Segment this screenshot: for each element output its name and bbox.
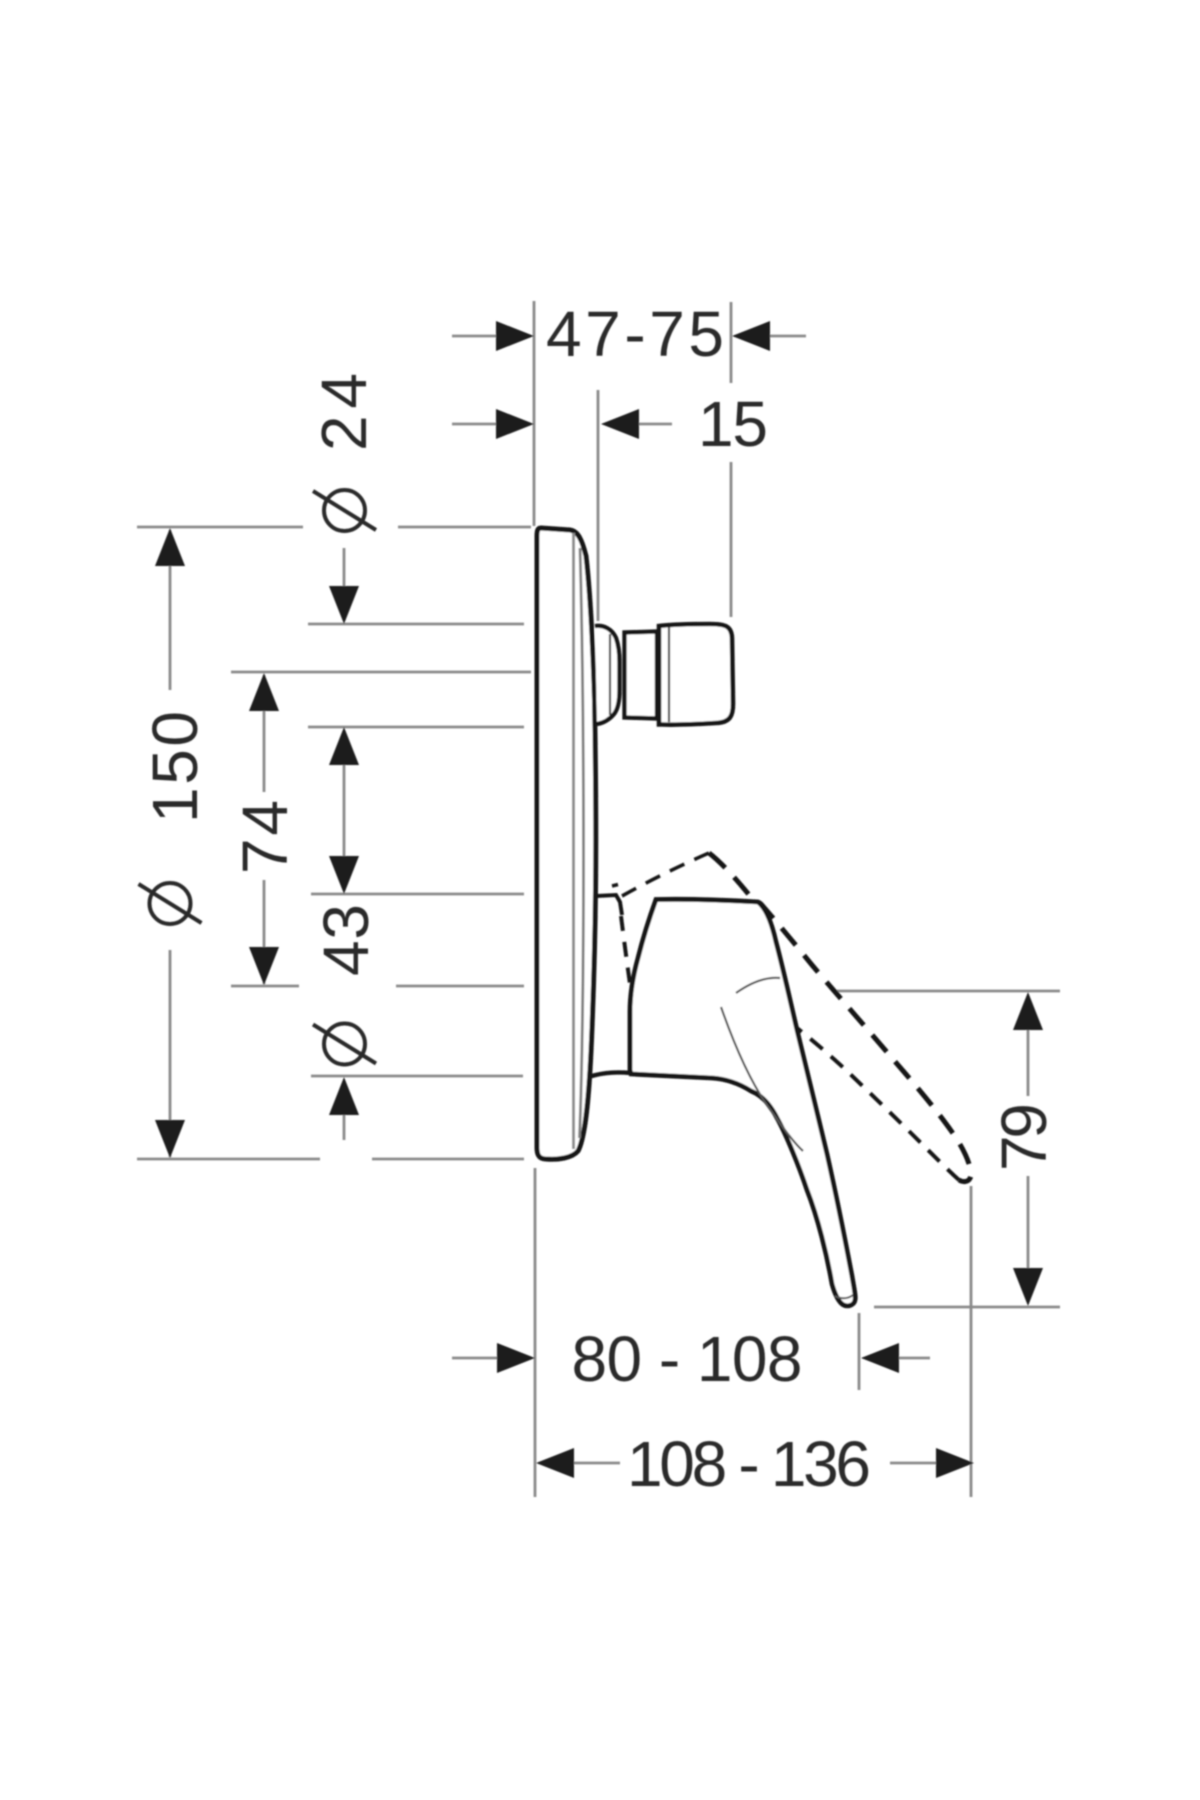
extension line: dashed lever tip vertical (970, 1186, 973, 1497)
dimension line Ø24 / Ø43 vertical (343, 548, 346, 588)
svg-text:15: 15 (698, 388, 768, 460)
plate front rim line (572, 533, 575, 1149)
arrow Ø24 bottom (329, 727, 359, 765)
extension line: plate top horizontal (Ø150 top) (137, 526, 303, 529)
extension line: plate back face (15 dim right) (597, 390, 600, 621)
arrow Ø150 top (155, 528, 185, 566)
lever highlight arc upper (736, 978, 780, 993)
svg-text:108 - 136: 108 - 136 (627, 1428, 871, 1500)
extension line: spout end vertical upper (730, 302, 733, 383)
dimension line Ø150 vertical (169, 530, 172, 690)
sleeve rim line (609, 634, 611, 715)
extension line: wall face bottom vertical (534, 1168, 537, 1497)
arrow 15 left (496, 409, 534, 439)
svg-text:24: 24 (308, 373, 380, 451)
lever tip highlight (835, 1295, 853, 1298)
extension line: dashed lever top (79 top) (832, 990, 1060, 993)
arrow 74 top (249, 673, 279, 711)
svg-text:150: 150 (139, 711, 211, 823)
arrow Ø43 top (329, 856, 359, 894)
extension line: solid lever tip (79 bottom) (874, 1306, 1060, 1309)
arrow Ø43 bottom (329, 1077, 359, 1115)
arrow 15 right (601, 409, 639, 439)
extension line: hub top (43 top) (311, 893, 524, 896)
extension line: spout end vertical lower (730, 462, 733, 617)
arrow 79 top (1013, 992, 1043, 1030)
arrow 79 bottom (1013, 1268, 1043, 1306)
extension line: cartridge axis (74 bottom) (231, 985, 299, 988)
extension line: wall/plate face vertical (top) (533, 301, 536, 526)
arrow 47-75 left (496, 321, 534, 351)
arrow 80-108 right (861, 1343, 899, 1373)
arrow Ø24 top (329, 586, 359, 624)
dimension line 74 vertical (263, 675, 266, 792)
arrow 47-75 right (732, 321, 770, 351)
plate dome contour line (580, 548, 584, 1138)
svg-text:80 - 108: 80 - 108 (572, 1323, 803, 1395)
arrow 80-108 left (497, 1343, 535, 1373)
dashed lever lower edge (782, 1014, 959, 1180)
dimension line 108-136 tails (574, 1462, 620, 1465)
dimension line 80-108 tails (452, 1357, 497, 1360)
arrow Ø150 bottom (155, 1120, 185, 1158)
extension line: spout top (Ø24 top) (308, 623, 524, 626)
svg-text:43: 43 (310, 904, 382, 976)
dashed handle top rising edge (622, 853, 709, 896)
extension line: solid lever tip vertical (858, 1313, 861, 1390)
svg-text:47-75: 47-75 (546, 298, 724, 370)
arrow 108-136 right (936, 1448, 974, 1478)
spout step line (668, 627, 670, 722)
arrow 74 bottom (249, 947, 279, 985)
dimension line 79 vertical (1027, 1030, 1030, 1096)
dimension line 15 tails (452, 423, 497, 426)
dashed lever upper edge (709, 853, 971, 1182)
svg-text:79: 79 (988, 1103, 1060, 1171)
dimension line 47-75 tails (452, 335, 497, 338)
extension line: plate bottom (Ø150 bottom) (137, 1158, 320, 1161)
svg-text:74: 74 (229, 800, 301, 874)
lever highlight curve long (721, 1007, 803, 1151)
extension line: spout axis (74 top) (231, 671, 531, 674)
dashed handle left edge (621, 916, 630, 984)
arrow 108-136 left (536, 1448, 574, 1478)
extension line: spout bottom (Ø24 bottom) (308, 726, 524, 729)
extension line: hub bottom (43 bottom) (311, 1075, 523, 1078)
